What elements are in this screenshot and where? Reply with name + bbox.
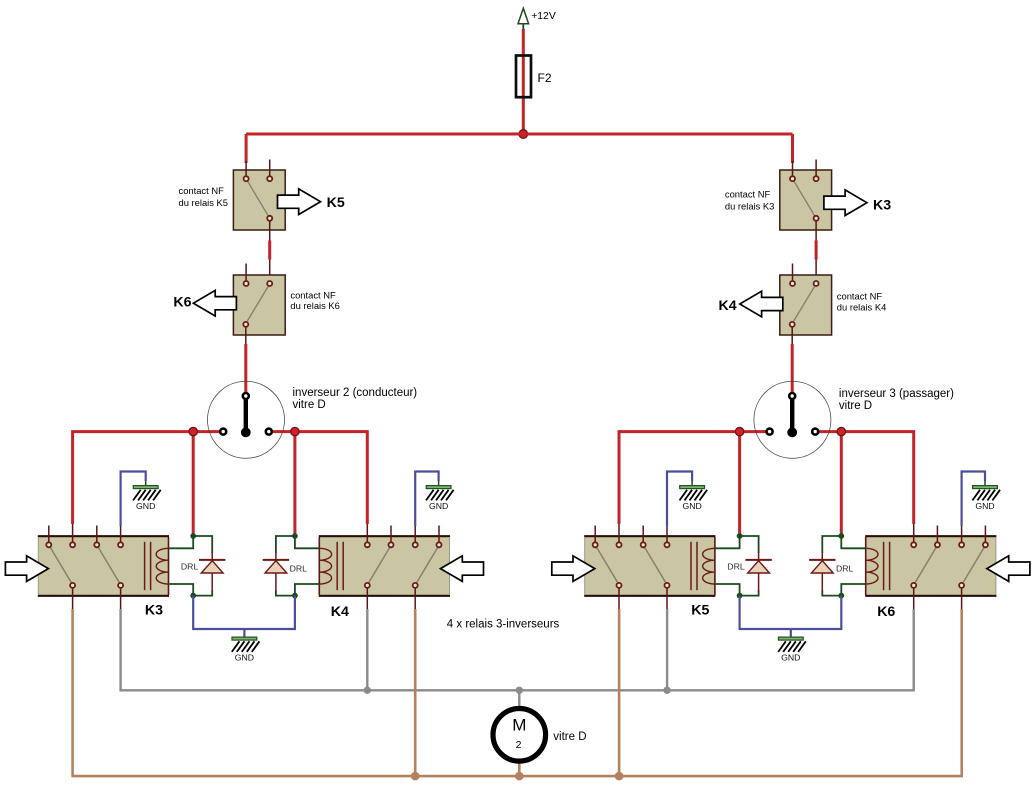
svg-text:du relais K5: du relais K5 [179, 197, 229, 208]
arrow K6 [193, 290, 236, 316]
relay K3 [38, 524, 169, 609]
svg-text:GND: GND [682, 501, 701, 511]
wire blue to ground [121, 472, 146, 527]
contact NF du relais K5 [233, 160, 285, 242]
svg-text:vitre D: vitre D [293, 399, 326, 411]
svg-text:GND: GND [975, 501, 994, 511]
wire blue coil grounds [740, 596, 791, 629]
svg-text:du relais K6: du relais K6 [290, 300, 340, 311]
junction coil node [838, 533, 844, 539]
wire inverseur 2 right coil drop [293, 432, 296, 534]
wire contact K6 to inverseur 2 [244, 344, 247, 392]
junction node [837, 427, 845, 435]
wire brown drop K5 [618, 609, 621, 776]
relay coil K3 [145, 542, 169, 590]
wire inverseur 3 right coil drop [840, 432, 843, 534]
svg-text:du relais K3: du relais K3 [725, 200, 775, 211]
svg-text:K6: K6 [173, 295, 191, 311]
wire inverseur 3 right branch [818, 432, 914, 524]
diode DRL (K3) flyback [199, 552, 225, 592]
arrow K6 [987, 556, 1030, 582]
ground GND [972, 486, 1000, 511]
wire inverseur 3 left branch [619, 432, 767, 524]
wire inverseur 3 left coil drop [738, 432, 741, 534]
wire blue to ground [667, 472, 692, 527]
svg-text:+12V: +12V [531, 11, 556, 22]
wire inverseur 2 left coil drop [192, 432, 195, 534]
switch inverseur 3 (passager) [754, 381, 831, 458]
junction coil node [190, 593, 196, 599]
wire coil K6 top [841, 536, 865, 548]
svg-text:DRL: DRL [836, 563, 854, 573]
wire ground stub [145, 480, 147, 486]
wire diode K4 bottom [276, 590, 295, 595]
junction coil node [737, 533, 743, 539]
wire contact K3 to contact K4 [815, 241, 818, 260]
wire +12V to bus junction [522, 29, 525, 134]
ground GND [232, 637, 260, 662]
svg-text:vitre D: vitre D [553, 731, 586, 743]
svg-text:2: 2 [516, 739, 522, 751]
svg-text:K5: K5 [327, 195, 345, 211]
svg-text:K5: K5 [691, 602, 709, 618]
svg-text:K6: K6 [877, 604, 895, 620]
wire brown motor stub [518, 761, 521, 777]
relay K6 [865, 524, 996, 609]
wire diode K5 bottom [740, 590, 759, 595]
wire contact K4 to inverseur 3 [791, 344, 794, 392]
junction main bus node [519, 130, 528, 139]
junction brown [515, 772, 524, 781]
svg-text:4 x relais 3-inverseurs: 4 x relais 3-inverseurs [447, 618, 560, 630]
wire ground stub [691, 480, 693, 486]
wire brown drop K4 [414, 609, 417, 776]
svg-text:vitre D: vitre D [839, 400, 872, 412]
wire gray drop K4 [366, 609, 368, 690]
wire contact K5 to contact K6 [268, 241, 271, 260]
svg-text:contact NF: contact NF [725, 189, 771, 200]
wire main +12V bus [246, 133, 792, 136]
relay K5 [584, 524, 715, 609]
ground GND [426, 486, 454, 511]
wire coil K3 bottom [169, 584, 194, 596]
arrow K5 [278, 189, 321, 215]
junction node [735, 427, 743, 435]
svg-text:DRL: DRL [181, 562, 199, 572]
junction gray [364, 687, 371, 694]
svg-text:GND: GND [429, 501, 448, 511]
svg-text:K3: K3 [145, 602, 163, 618]
svg-text:GND: GND [781, 653, 800, 663]
wire coil K3 top [169, 536, 194, 548]
relay coil K6 [866, 542, 890, 590]
svg-text:DRL: DRL [290, 563, 308, 573]
wire coil K4 top [295, 536, 319, 548]
wire diode K6 bottom [822, 590, 841, 595]
junction coil node [737, 593, 743, 599]
wire ground stub [984, 480, 986, 486]
motor M2 vitre D [493, 709, 546, 762]
arrow K4 [441, 556, 484, 582]
svg-text:du relais K4: du relais K4 [837, 302, 887, 313]
junction gray [516, 687, 523, 694]
wire bus to contact K5 [245, 134, 248, 163]
wire inverseur 2 left branch [73, 432, 221, 524]
diode DRL (K4) flyback [263, 552, 289, 592]
switch inverseur 2 (conducteur) [208, 381, 285, 458]
fuse F2 [516, 56, 552, 98]
svg-text:M: M [512, 715, 526, 734]
arrow K3 [5, 556, 48, 582]
svg-text:DRL: DRL [727, 562, 745, 572]
wire coil K6 bottom [841, 584, 865, 596]
svg-text:contact NF: contact NF [179, 185, 225, 196]
ground GND [133, 486, 161, 511]
arrow K3 [824, 190, 867, 216]
junction brown [615, 772, 624, 781]
relay K4 [319, 524, 450, 609]
ground GND [680, 486, 708, 511]
wire bus to contact K3 [791, 134, 794, 163]
svg-text:inverseur 3 (passager): inverseur 3 (passager) [839, 388, 954, 400]
power +12V [518, 8, 556, 30]
wire diode K6 top [822, 536, 841, 553]
wire diode K3 bottom [193, 590, 212, 595]
wire diode K4 top [276, 536, 295, 553]
wire brown bus (motor terminal 2) [73, 609, 962, 776]
junction brown [411, 772, 420, 781]
svg-text:contact NF: contact NF [837, 290, 883, 301]
contact NF du relais K4 [780, 264, 832, 346]
svg-text:K4: K4 [331, 604, 349, 620]
arrow K4 [740, 291, 783, 317]
contact NF du relais K3 [780, 160, 832, 242]
wire diode K5 top [740, 536, 759, 553]
wire gray bus (motor terminal 1) [121, 609, 914, 690]
wire diode K3 top [193, 536, 212, 553]
relay coil K5 [691, 542, 715, 590]
relay coil K4 [319, 542, 343, 590]
wire coil K5 top [715, 536, 740, 548]
wire blue to ground [962, 472, 985, 527]
wire coil K5 bottom [715, 584, 740, 596]
svg-text:K3: K3 [873, 198, 891, 214]
junction node [291, 427, 299, 435]
wire inverseur 2 right branch [272, 432, 368, 524]
wire blue to ground [415, 472, 438, 527]
junction node [189, 427, 197, 435]
wire blue coil grounds [193, 596, 244, 629]
svg-text:GND: GND [235, 653, 254, 663]
junction gray [663, 687, 670, 694]
wire gray drop K5 [666, 609, 668, 690]
svg-text:K4: K4 [719, 298, 737, 314]
svg-text:GND: GND [136, 501, 155, 511]
junction coil node [292, 533, 298, 539]
svg-text:inverseur 2 (conducteur): inverseur 2 (conducteur) [293, 387, 418, 399]
ground GND [778, 637, 806, 662]
wire coil K4 bottom [295, 584, 319, 596]
junction coil node [292, 593, 298, 599]
wire ground stub [438, 480, 440, 486]
arrow K5 [552, 556, 595, 582]
svg-text:F2: F2 [538, 71, 552, 85]
wire gray motor stub [518, 690, 520, 709]
diode DRL (K6) flyback [809, 552, 835, 592]
junction coil node [838, 593, 844, 599]
svg-text:contact NF: contact NF [290, 289, 336, 300]
junction coil node [190, 533, 196, 539]
contact NF du relais K6 [233, 264, 285, 346]
diode DRL (K5) flyback [745, 552, 771, 592]
